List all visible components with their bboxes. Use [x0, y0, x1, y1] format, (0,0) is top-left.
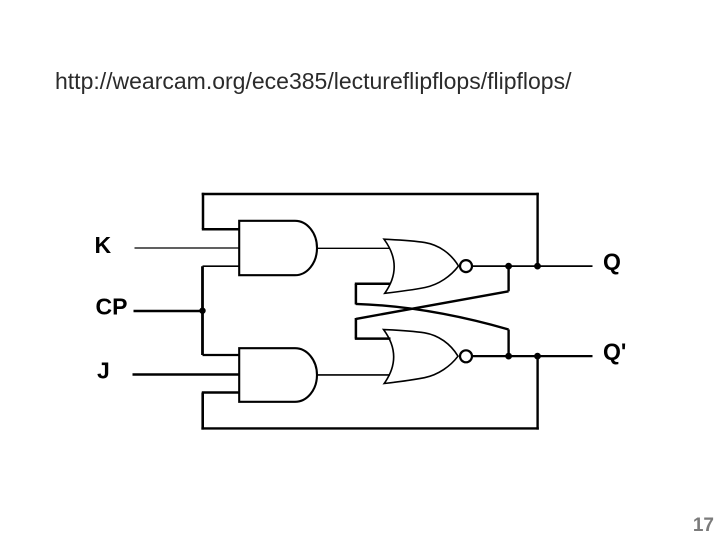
wire top NOR input2 horizontal — [355, 283, 390, 286]
wire outer feedback: bottom edge — [201, 427, 538, 429]
wire cross: Q tap vertical down — [507, 266, 509, 291]
NOR gate top (outputs Q) — [384, 239, 459, 293]
wire outer feedback: left upper vertical — [202, 193, 205, 229]
wire outer feedback: right upper vertical (Q to top edge) — [536, 193, 538, 266]
junction dot Q' line at feedback tap — [534, 353, 541, 360]
NOR gate bottom output bubble — [460, 350, 472, 362]
junction dot Q line at cross tap — [505, 263, 512, 270]
wire outer feedback: top edge — [202, 193, 539, 196]
wire top AND input3 horizontal (CP) — [203, 265, 240, 267]
wire cross: diagonal Q to bottom NOR (upper-right to lower-left) — [356, 291, 509, 319]
svg-text:J: J — [97, 358, 110, 384]
svg-text:K: K — [95, 232, 112, 258]
wire bottom AND output to bottom NOR input2 — [317, 374, 390, 376]
wire Q output line — [472, 265, 593, 267]
NOR gate top output bubble — [460, 260, 472, 272]
wire top AND input1 horizontal — [202, 228, 240, 231]
wire cross: diagonal Q' to top NOR (lower-right to upper-left) — [356, 304, 509, 330]
wire CP input — [134, 310, 203, 313]
svg-text:CP: CP — [96, 293, 128, 319]
AND gate bottom (J gate) — [239, 348, 317, 402]
wire bottom AND input3 horizontal — [202, 391, 240, 393]
wire outer feedback: right lower vertical (Q' to bottom edge) — [536, 356, 538, 430]
svg-text:Q': Q' — [603, 338, 626, 364]
wire top AND output to top NOR input1 — [317, 247, 390, 249]
wire bottom AND input1 horizontal (CP) — [203, 354, 240, 356]
junction dot Q line at feedback tap — [534, 263, 541, 270]
wire cross: upper-left bracket vertical — [355, 284, 358, 305]
wire Q' output line — [472, 355, 593, 357]
svg-text:Q: Q — [603, 248, 621, 274]
wire K input — [135, 247, 241, 249]
NOR gate bottom (outputs Q') — [384, 330, 459, 384]
junction dot Q' line at cross tap — [505, 353, 512, 360]
wire bottom NOR input1 horizontal — [355, 337, 391, 340]
junction CP node dot — [199, 308, 205, 314]
wire J input — [133, 373, 241, 375]
wire cross: lower-left bracket vertical — [355, 318, 358, 339]
wire CP vertical bus — [201, 266, 204, 355]
wire cross: Q' tap vertical up — [507, 330, 509, 357]
wire outer feedback: left lower vertical — [201, 393, 204, 430]
AND gate top (K gate) — [239, 221, 317, 275]
